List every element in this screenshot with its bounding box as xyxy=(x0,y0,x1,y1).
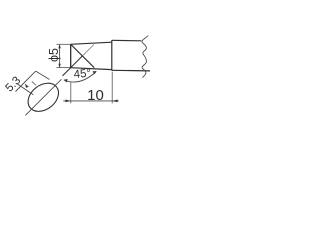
45 arc arrowhead left xyxy=(64,79,68,83)
shank bottom edge xyxy=(112,69,150,72)
svg-text:ϕ5: ϕ5 xyxy=(47,48,61,62)
bevel face ellipse xyxy=(23,77,64,117)
break squiggle xyxy=(142,36,148,78)
10 dim extension right xyxy=(111,72,113,104)
tip top edge xyxy=(71,42,112,44)
45 arc arrowhead right xyxy=(93,71,97,74)
bevel diagonal upper faint part xyxy=(83,44,94,55)
svg-text:45°: 45° xyxy=(73,68,91,81)
10 dimension line xyxy=(63,100,119,102)
5.3 tangent leader xyxy=(36,71,50,79)
face centerline xyxy=(25,79,61,115)
shank top edge xyxy=(112,39,141,42)
bevel diagonal up-right with tail xyxy=(63,56,83,76)
45 degree angle arc xyxy=(64,72,96,83)
phi5 arrowhead bottom xyxy=(58,64,60,68)
phi5 arrowhead top xyxy=(58,44,60,48)
phi5 extension line bottom xyxy=(57,67,71,69)
svg-text:10: 10 xyxy=(87,87,104,104)
tip left edge xyxy=(70,44,72,67)
5.3 extension line xyxy=(16,71,36,91)
10 dim extension left xyxy=(70,82,72,103)
bevel diagonal down-right xyxy=(71,44,95,67)
svg-text:5.3: 5.3 xyxy=(3,75,23,95)
5.3 dimension line xyxy=(17,84,34,95)
phi5 extension line top xyxy=(57,43,71,45)
5.3 arrowhead on extension xyxy=(25,84,29,88)
phi5 dimension line xyxy=(59,45,61,68)
shoulder vertical xyxy=(111,40,113,70)
10 arrowhead right xyxy=(112,100,117,103)
tip bottom edge xyxy=(71,68,112,70)
5.3 stub segment xyxy=(32,81,36,85)
10 arrowhead left xyxy=(65,100,70,103)
